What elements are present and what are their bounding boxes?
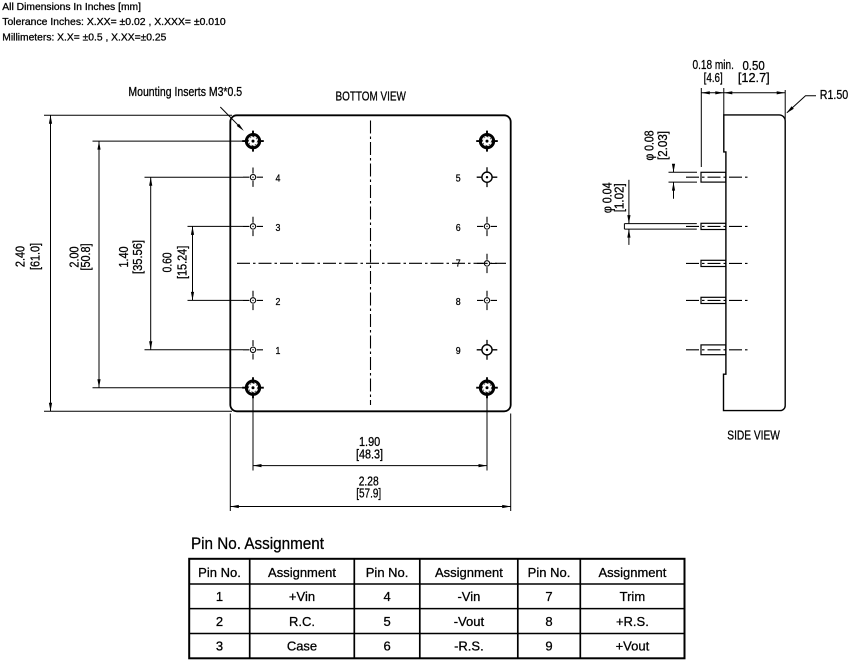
svg-text:4: 4 — [276, 173, 281, 185]
svg-text:+Vin: +Vin — [289, 589, 315, 604]
svg-text:7: 7 — [456, 258, 461, 270]
svg-text:Assignment: Assignment — [268, 565, 336, 580]
svg-text:R.C.: R.C. — [289, 614, 315, 629]
svg-text:Pin No.: Pin No. — [528, 565, 571, 580]
svg-text:1.40: 1.40 — [116, 246, 131, 267]
svg-text:[50.8]: [50.8] — [78, 243, 93, 270]
svg-text:Pin No.: Pin No. — [198, 565, 241, 580]
svg-text:0.60: 0.60 — [160, 252, 175, 272]
svg-text:Millimeters: X.X= ±0.5 , X.XX=: Millimeters: X.X= ±0.5 , X.XX=±0.25 — [2, 32, 166, 43]
svg-text:[2.03]: [2.03] — [655, 131, 670, 160]
svg-text:-Vout: -Vout — [454, 614, 485, 629]
svg-text:Trim: Trim — [620, 589, 646, 604]
svg-text:BOTTOM VIEW: BOTTOM VIEW — [336, 88, 407, 103]
svg-text:-Vin: -Vin — [457, 589, 480, 604]
svg-text:[15.24]: [15.24] — [175, 246, 190, 279]
svg-text:7: 7 — [545, 589, 552, 604]
svg-text:6: 6 — [383, 639, 390, 654]
svg-text:1: 1 — [276, 345, 281, 357]
svg-text:[48.3]: [48.3] — [356, 446, 383, 461]
svg-text:-R.S.: -R.S. — [454, 639, 484, 654]
svg-text:[1.02]: [1.02] — [612, 183, 627, 212]
svg-text:Tolerance Inches: X.XX= ±0.02: Tolerance Inches: X.XX= ±0.02 , X.XXX= ±… — [2, 17, 226, 28]
svg-text:Pin No.: Pin No. — [366, 565, 409, 580]
svg-text:Pin No. Assignment: Pin No. Assignment — [191, 535, 324, 553]
svg-text:4: 4 — [383, 589, 390, 604]
svg-text:3: 3 — [216, 639, 223, 654]
svg-text:5: 5 — [383, 614, 390, 629]
svg-text:9: 9 — [545, 639, 552, 654]
svg-text:Assignment: Assignment — [435, 565, 503, 580]
svg-text:+R.S.: +R.S. — [616, 614, 649, 629]
svg-text:2: 2 — [276, 296, 281, 308]
svg-text:8: 8 — [456, 296, 461, 308]
svg-text:SIDE VIEW: SIDE VIEW — [727, 428, 780, 443]
svg-text:[35.56]: [35.56] — [130, 240, 145, 274]
svg-text:3: 3 — [276, 222, 281, 234]
svg-text:R1.50: R1.50 — [820, 87, 848, 102]
svg-text:Mounting Inserts M3*0.5: Mounting Inserts M3*0.5 — [128, 84, 242, 99]
svg-text:6: 6 — [456, 222, 461, 234]
svg-text:Assignment: Assignment — [598, 565, 666, 580]
svg-text:2: 2 — [216, 614, 223, 629]
svg-text:[12.7]: [12.7] — [738, 70, 770, 85]
svg-text:1: 1 — [216, 589, 223, 604]
svg-text:8: 8 — [545, 614, 552, 629]
svg-text:+Vout: +Vout — [616, 639, 650, 654]
svg-text:5: 5 — [456, 173, 461, 185]
svg-text:9: 9 — [456, 345, 461, 357]
svg-text:[57.9]: [57.9] — [356, 486, 381, 501]
svg-text:[4.6]: [4.6] — [704, 70, 723, 85]
svg-text:[61.0]: [61.0] — [28, 243, 43, 270]
svg-text:All Dimensions In Inches [mm]: All Dimensions In Inches [mm] — [2, 2, 141, 13]
svg-text:2.40: 2.40 — [12, 246, 27, 267]
svg-text:Case: Case — [287, 639, 317, 654]
